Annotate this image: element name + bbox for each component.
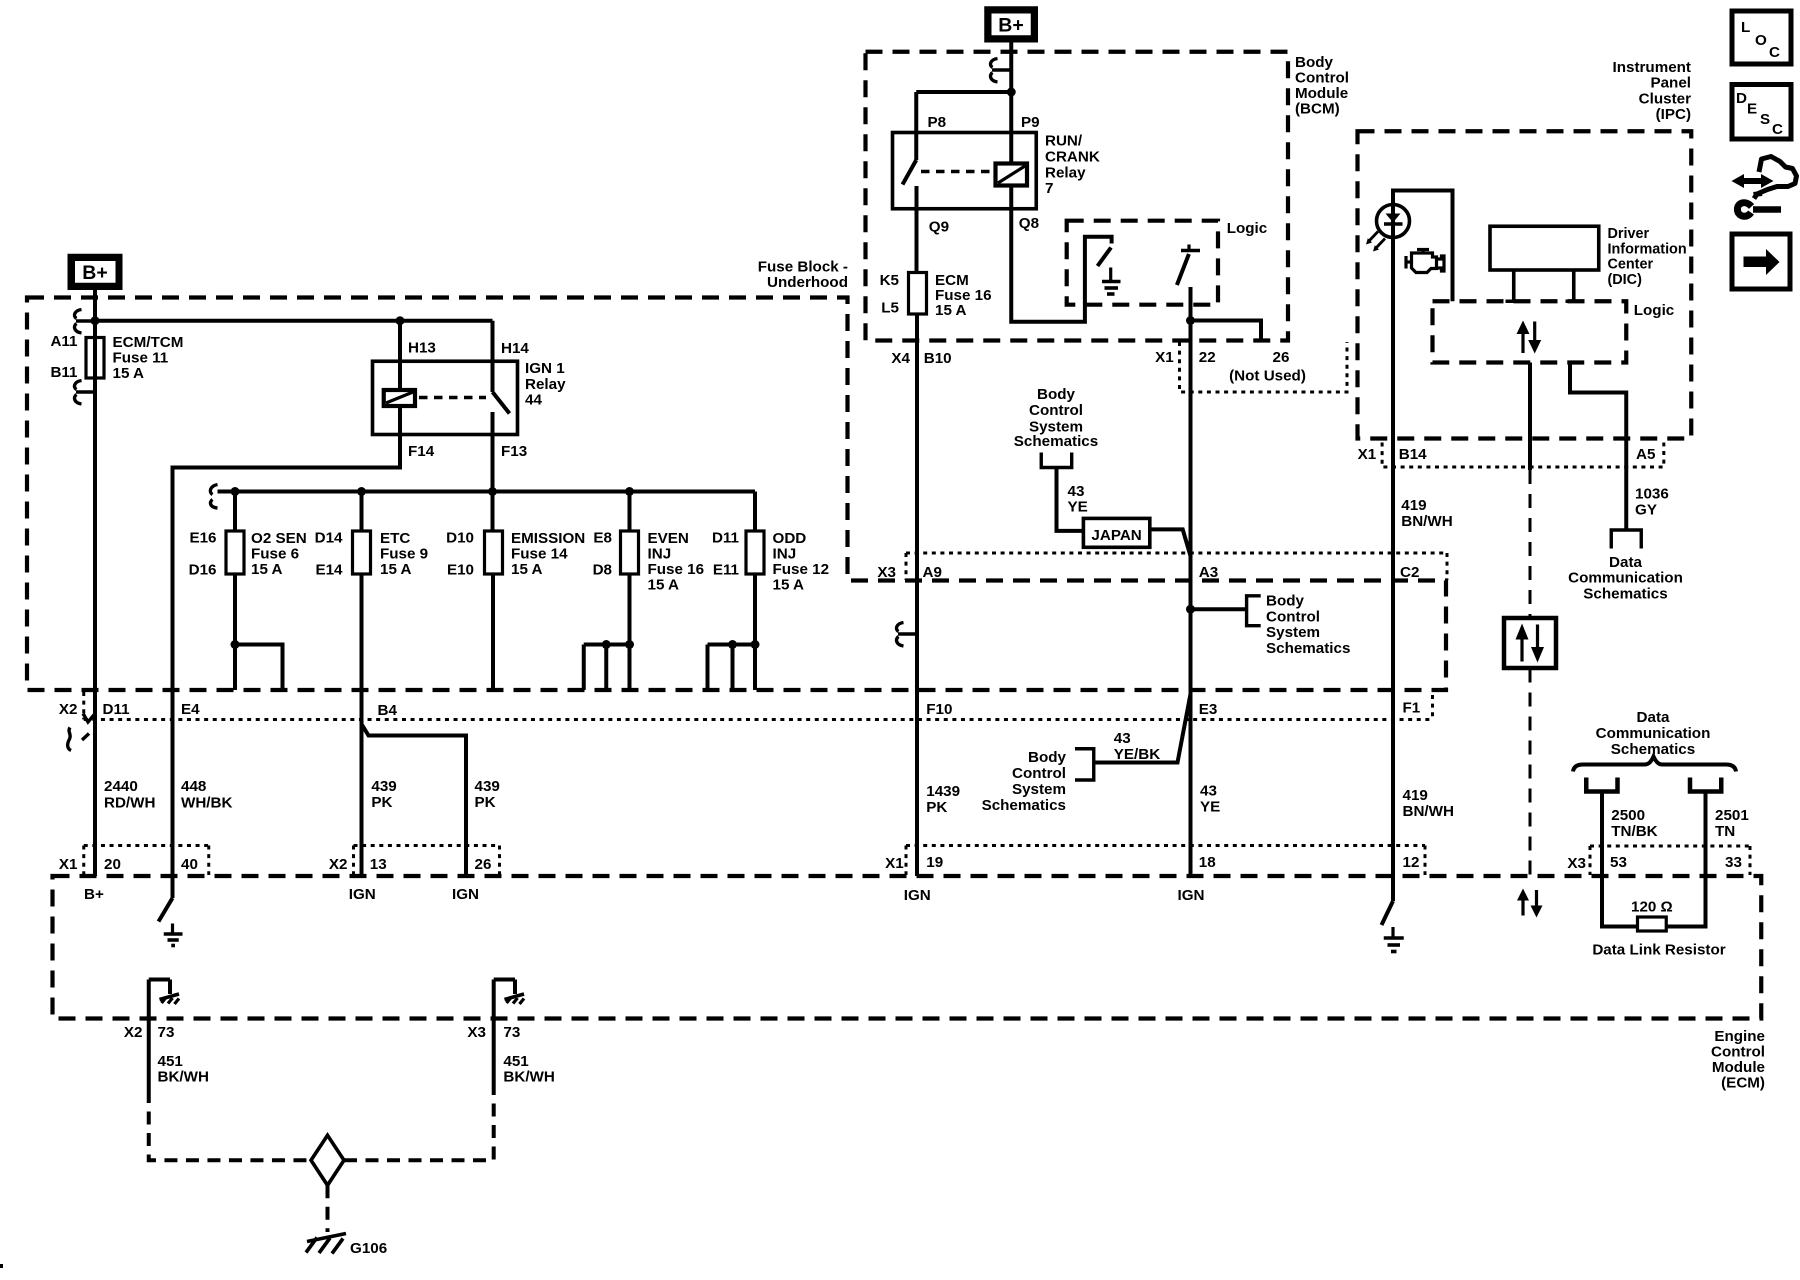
svg-text:TN: TN: [1715, 823, 1735, 840]
svg-text:P8: P8: [928, 114, 947, 131]
svg-text:X2: X2: [59, 701, 78, 718]
svg-text:PK: PK: [475, 794, 496, 811]
svg-text:448: 448: [181, 778, 206, 795]
svg-text:O2 SEN: O2 SEN: [251, 530, 307, 547]
svg-text:Body: Body: [1266, 593, 1305, 610]
svg-text:43: 43: [1200, 783, 1217, 800]
svg-text:C2: C2: [1400, 564, 1419, 581]
svg-text:B14: B14: [1399, 446, 1427, 463]
svg-text:Control: Control: [1711, 1044, 1765, 1061]
svg-text:15 A: 15 A: [113, 365, 145, 382]
svg-text:Schematics: Schematics: [982, 797, 1066, 814]
svg-text:F13: F13: [501, 443, 527, 460]
svg-text:439: 439: [475, 778, 500, 795]
svg-text:15 A: 15 A: [251, 561, 283, 578]
svg-text:B+: B+: [84, 886, 104, 903]
svg-text:D16: D16: [189, 562, 217, 579]
svg-text:D8: D8: [593, 562, 612, 579]
svg-text:Fuse 11: Fuse 11: [113, 350, 169, 367]
svg-text:G106: G106: [350, 1240, 387, 1257]
svg-text:IGN 1: IGN 1: [525, 360, 565, 377]
svg-text:19: 19: [926, 854, 943, 871]
svg-text:419: 419: [1403, 787, 1428, 804]
svg-text:Control: Control: [1266, 608, 1320, 625]
svg-text:Fuse 12: Fuse 12: [773, 561, 830, 578]
svg-text:H13: H13: [408, 340, 436, 357]
svg-text:E4: E4: [181, 701, 200, 718]
svg-text:EVEN: EVEN: [648, 530, 689, 547]
svg-text:IGN: IGN: [349, 886, 376, 903]
svg-text:L: L: [1741, 19, 1750, 36]
svg-text:F1: F1: [1403, 700, 1421, 717]
svg-text:C: C: [1769, 44, 1780, 61]
svg-text:Instrument: Instrument: [1613, 59, 1691, 76]
svg-text:Communication: Communication: [1568, 570, 1683, 587]
svg-text:YE: YE: [1068, 499, 1088, 516]
svg-text:F14: F14: [408, 443, 435, 460]
svg-text:20: 20: [104, 856, 121, 873]
svg-text:Schematics: Schematics: [1611, 741, 1695, 758]
svg-text:Q8: Q8: [1019, 215, 1039, 232]
svg-text:WH/BK: WH/BK: [181, 795, 232, 812]
svg-text:X1: X1: [1358, 446, 1377, 463]
svg-text:D10: D10: [446, 530, 474, 547]
svg-text:D11: D11: [712, 530, 740, 547]
svg-text:B+: B+: [82, 262, 107, 284]
svg-text:Logic: Logic: [1227, 220, 1268, 237]
svg-text:X3: X3: [467, 1024, 486, 1041]
svg-text:TN/BK: TN/BK: [1611, 823, 1657, 840]
svg-text:YE: YE: [1200, 799, 1220, 816]
svg-text:Fuse Block -: Fuse Block -: [758, 259, 848, 276]
svg-text:P9: P9: [1021, 114, 1040, 131]
svg-text:120 Ω: 120 Ω: [1631, 899, 1673, 916]
svg-text:E16: E16: [189, 530, 216, 547]
svg-text:15 A: 15 A: [380, 561, 412, 578]
svg-text:E11: E11: [713, 562, 740, 579]
svg-text:A5: A5: [1636, 446, 1656, 463]
svg-text:ECM/TCM: ECM/TCM: [113, 334, 184, 351]
svg-text:GY: GY: [1635, 502, 1657, 519]
svg-text:Schematics: Schematics: [1266, 640, 1350, 657]
svg-text:Fuse 9: Fuse 9: [380, 546, 428, 563]
svg-text:43: 43: [1068, 483, 1085, 500]
svg-text:E14: E14: [315, 562, 343, 579]
svg-text:System: System: [1012, 781, 1066, 798]
svg-text:7: 7: [1045, 180, 1053, 197]
svg-text:E: E: [1747, 101, 1757, 118]
svg-text:419: 419: [1401, 497, 1426, 514]
svg-text:O: O: [1755, 32, 1767, 49]
svg-text:451: 451: [158, 1053, 184, 1070]
svg-text:Module: Module: [1712, 1059, 1765, 1076]
svg-text:A9: A9: [923, 564, 942, 581]
svg-text:BK/WH: BK/WH: [503, 1069, 554, 1086]
svg-text:BN/WH: BN/WH: [1401, 513, 1452, 530]
svg-text:IGN: IGN: [452, 886, 479, 903]
svg-text:1439: 1439: [926, 783, 960, 800]
svg-text:D11: D11: [103, 701, 131, 718]
svg-text:B11: B11: [50, 364, 78, 381]
svg-text:INJ: INJ: [773, 546, 797, 563]
svg-text:BN/WH: BN/WH: [1403, 803, 1454, 820]
svg-text:Control: Control: [1029, 402, 1083, 419]
svg-text:15 A: 15 A: [935, 302, 967, 319]
svg-text:L5: L5: [881, 300, 899, 317]
svg-text:RD/WH: RD/WH: [104, 795, 155, 812]
svg-text:15 A: 15 A: [648, 577, 680, 594]
svg-text:Relay: Relay: [1045, 165, 1086, 182]
svg-text:Schematics: Schematics: [1583, 586, 1667, 603]
svg-text:IGN: IGN: [904, 887, 931, 904]
svg-text:PK: PK: [926, 799, 947, 816]
svg-text:H14: H14: [501, 340, 529, 357]
svg-text:X3: X3: [877, 564, 896, 581]
svg-text:Data: Data: [1637, 709, 1670, 726]
svg-text:15 A: 15 A: [511, 561, 543, 578]
svg-text:22: 22: [1199, 349, 1216, 366]
svg-text:439: 439: [371, 778, 396, 795]
svg-text:Schematics: Schematics: [1014, 433, 1098, 450]
svg-text:IGN: IGN: [1178, 887, 1205, 904]
svg-text:CRANK: CRANK: [1045, 149, 1100, 166]
svg-text:73: 73: [158, 1024, 175, 1041]
svg-text:33: 33: [1725, 854, 1742, 871]
svg-text:B+: B+: [998, 15, 1023, 37]
svg-text:X4: X4: [891, 350, 910, 367]
svg-text:(IPC): (IPC): [1656, 106, 1691, 123]
svg-text:B4: B4: [378, 702, 398, 719]
svg-text:ETC: ETC: [380, 530, 410, 547]
svg-text:73: 73: [503, 1024, 520, 1041]
svg-text:(DIC): (DIC): [1608, 272, 1643, 288]
svg-text:26: 26: [1273, 349, 1290, 366]
svg-text:40: 40: [181, 856, 198, 873]
svg-text:A11: A11: [50, 333, 78, 350]
svg-text:X2: X2: [124, 1024, 143, 1041]
svg-text:15 A: 15 A: [773, 577, 805, 594]
svg-text:K5: K5: [880, 272, 900, 289]
svg-text:S: S: [1760, 111, 1770, 128]
svg-text:B10: B10: [924, 350, 952, 367]
svg-text:Engine: Engine: [1714, 1028, 1765, 1045]
svg-text:A3: A3: [1199, 564, 1218, 581]
svg-text:43: 43: [1114, 730, 1131, 747]
svg-text:1036: 1036: [1635, 486, 1669, 503]
svg-text:E3: E3: [1199, 701, 1218, 718]
svg-text:(Not Used): (Not Used): [1229, 368, 1306, 385]
svg-text:ODD: ODD: [773, 530, 807, 547]
svg-text:53: 53: [1610, 854, 1627, 871]
svg-text:X3: X3: [1567, 855, 1586, 872]
svg-text:Body: Body: [1037, 386, 1076, 403]
svg-text:Underhood: Underhood: [767, 274, 848, 291]
svg-text:E10: E10: [447, 562, 474, 579]
svg-text:(BCM): (BCM): [1295, 101, 1340, 118]
svg-text:INJ: INJ: [648, 546, 672, 563]
svg-text:18: 18: [1199, 854, 1216, 871]
svg-text:Relay: Relay: [525, 376, 566, 393]
svg-text:Communication: Communication: [1596, 725, 1711, 742]
svg-text:Fuse 16: Fuse 16: [648, 561, 705, 578]
svg-text:C: C: [1772, 121, 1783, 138]
svg-text:Control: Control: [1295, 70, 1349, 87]
svg-text:Fuse 14: Fuse 14: [511, 546, 568, 563]
svg-text:Panel: Panel: [1650, 75, 1691, 92]
svg-text:RUN/: RUN/: [1045, 133, 1083, 150]
svg-text:Body: Body: [1028, 749, 1067, 766]
svg-text:Body: Body: [1295, 54, 1334, 71]
svg-text:Driver: Driver: [1608, 226, 1650, 242]
svg-text:PK: PK: [371, 794, 392, 811]
svg-text:13: 13: [370, 856, 387, 873]
svg-text:X1: X1: [1155, 349, 1174, 366]
svg-text:Data: Data: [1609, 554, 1642, 571]
svg-text:X2: X2: [329, 856, 348, 873]
svg-text:X1: X1: [885, 855, 904, 872]
svg-text:44: 44: [525, 392, 542, 409]
svg-text:Cluster: Cluster: [1639, 91, 1691, 108]
svg-text:Module: Module: [1295, 85, 1348, 102]
svg-text:Information: Information: [1608, 242, 1687, 258]
svg-text:Center: Center: [1608, 257, 1654, 273]
svg-text:2500: 2500: [1611, 807, 1645, 824]
svg-text:2501: 2501: [1715, 807, 1749, 824]
svg-text:EMISSION: EMISSION: [511, 530, 585, 547]
svg-text:12: 12: [1403, 854, 1420, 871]
svg-text:D: D: [1736, 90, 1747, 107]
svg-text:JAPAN: JAPAN: [1091, 527, 1141, 544]
svg-text:D14: D14: [315, 530, 343, 547]
svg-text:26: 26: [475, 856, 492, 873]
svg-text:BK/WH: BK/WH: [158, 1069, 209, 1086]
svg-text:Fuse 6: Fuse 6: [251, 546, 299, 563]
svg-text:Data Link Resistor: Data Link Resistor: [1592, 942, 1725, 959]
svg-text:Logic: Logic: [1634, 302, 1675, 319]
svg-text:F10: F10: [926, 701, 952, 718]
svg-text:(ECM): (ECM): [1721, 1075, 1765, 1092]
svg-text:Control: Control: [1012, 765, 1066, 782]
svg-text:451: 451: [503, 1053, 529, 1070]
svg-text:2440: 2440: [104, 778, 138, 795]
svg-text:System: System: [1266, 624, 1320, 641]
svg-text:Q9: Q9: [929, 219, 949, 236]
svg-text:E8: E8: [593, 530, 612, 547]
svg-text:YE/BK: YE/BK: [1114, 746, 1160, 763]
svg-text:X1: X1: [59, 856, 78, 873]
